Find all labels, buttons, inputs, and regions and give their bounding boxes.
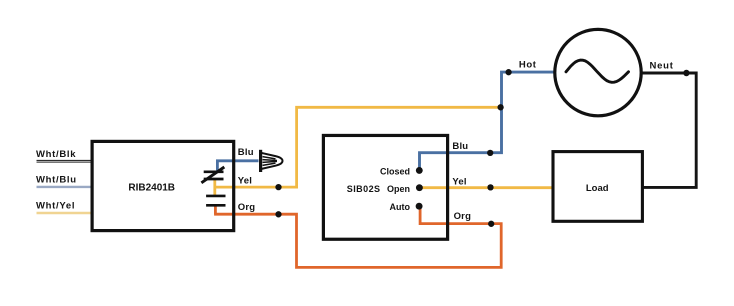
svg-text:SIB02S: SIB02S	[347, 184, 381, 194]
svg-text:Wht/Blu: Wht/Blu	[36, 175, 77, 186]
svg-text:Load: Load	[586, 183, 609, 194]
svg-text:Neut: Neut	[650, 60, 674, 71]
svg-text:Blu: Blu	[452, 141, 468, 152]
svg-text:Yel: Yel	[238, 175, 252, 186]
svg-text:Org: Org	[454, 211, 472, 222]
svg-text:Blu: Blu	[238, 147, 254, 158]
svg-text:Open: Open	[387, 184, 410, 194]
svg-text:Yel: Yel	[452, 176, 466, 187]
svg-text:Wht/Blk: Wht/Blk	[36, 149, 76, 160]
svg-text:RIB2401B: RIB2401B	[128, 183, 175, 194]
svg-text:Org: Org	[238, 202, 256, 213]
svg-text:Hot: Hot	[519, 59, 537, 70]
svg-text:Wht/Yel: Wht/Yel	[36, 201, 75, 212]
svg-text:Auto: Auto	[390, 202, 411, 212]
svg-text:Closed: Closed	[380, 167, 410, 177]
